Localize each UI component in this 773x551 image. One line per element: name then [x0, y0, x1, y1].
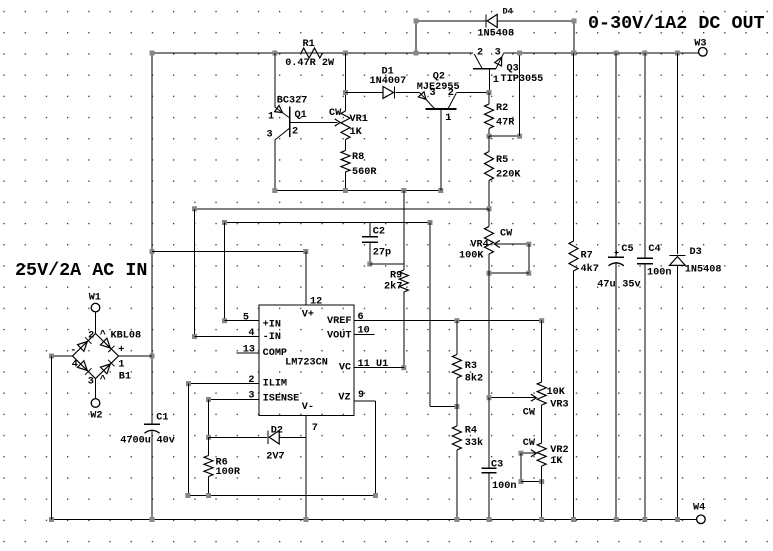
transistor Q1 body	[289, 107, 291, 138]
node Q3 base junction	[487, 90, 492, 95]
wire +V column below C1	[151, 430, 153, 520]
svg-text:35v: 35v	[622, 280, 640, 291]
svg-text:27p: 27p	[373, 248, 391, 259]
wire Q1 base	[290, 122, 338, 124]
wire divider tap	[430, 406, 457, 408]
wire pin2 riser	[188, 384, 190, 496]
svg-text:LM723CN: LM723CN	[285, 357, 328, 368]
svg-text:R3: R3	[465, 361, 477, 372]
wire +V column x152	[151, 53, 153, 424]
wire bottom rail	[52, 519, 697, 521]
svg-text:ISENSE: ISENSE	[263, 393, 300, 404]
svg-text:D2: D2	[271, 426, 283, 437]
transistor Q2 base lead	[440, 109, 442, 191]
svg-text:1K: 1K	[550, 456, 563, 467]
svg-text:B1: B1	[119, 371, 131, 382]
wire VREF corner to VR3	[541, 321, 543, 382]
svg-text:560R: 560R	[352, 167, 377, 178]
wire +IN riser to pin5	[224, 223, 226, 321]
svg-text:+: +	[118, 345, 124, 356]
bridge diode bottom-left	[78, 361, 88, 371]
wire pin4 stub	[195, 336, 260, 338]
wire R5 top lead	[488, 136, 490, 151]
wire pin6 stub / VREF net	[354, 320, 542, 322]
resistor R9	[399, 270, 408, 292]
wire pin10 stub	[354, 333, 375, 335]
transistor Q3 emitter arrow	[495, 57, 502, 66]
wire VR1 to R8	[345, 140, 347, 151]
svg-text:VR1: VR1	[350, 114, 368, 125]
terminal W3	[699, 48, 708, 57]
svg-text:COMP: COMP	[263, 348, 287, 359]
svg-text:0-30V/1A2 DC OUT: 0-30V/1A2 DC OUT	[588, 13, 765, 34]
node VR1/D1 junction	[343, 90, 348, 95]
bridge diode top-left	[78, 342, 88, 352]
node R3/R4 junction	[454, 404, 459, 409]
svg-text:3: 3	[88, 376, 94, 387]
wire D2 left lead	[209, 436, 268, 438]
node bottom at C3	[487, 517, 492, 522]
svg-text:10K: 10K	[547, 387, 566, 398]
node VR2 wiper corner	[518, 451, 523, 456]
svg-text:D3: D3	[690, 247, 702, 258]
wire W2 lead	[95, 379, 97, 399]
bridge B1 diamond	[73, 334, 119, 379]
svg-text:Q2: Q2	[433, 72, 445, 83]
node V+ corner	[303, 249, 308, 254]
svg-text:CW: CW	[329, 108, 342, 119]
wire VR1 top lead	[345, 53, 347, 111]
node bottom at D3	[675, 517, 680, 522]
svg-text:1N4007: 1N4007	[370, 76, 407, 87]
svg-text:VOUT: VOUT	[327, 331, 351, 342]
wire pin13 stub	[237, 352, 259, 354]
resistor R3	[452, 355, 461, 379]
potentiometer VR1	[341, 111, 350, 140]
wire pin11 stub	[354, 367, 404, 369]
svg-text:40v: 40v	[157, 436, 175, 447]
terminal W1	[91, 303, 100, 312]
diode D2	[269, 431, 279, 445]
wire R4 top lead	[456, 407, 458, 427]
svg-text:VZ: VZ	[338, 393, 350, 404]
node D4 right	[572, 18, 577, 23]
node bottom at R7	[571, 517, 576, 522]
svg-text:^: ^	[100, 329, 106, 341]
node VREF right corner	[539, 318, 544, 323]
svg-text:VC: VC	[339, 362, 351, 373]
svg-text:R9: R9	[390, 271, 402, 282]
svg-text:U1: U1	[376, 359, 388, 370]
wire C5 bottom lead	[615, 263, 617, 520]
capacitor C3	[482, 467, 497, 469]
wire VR4 to C3 column	[488, 254, 490, 468]
svg-text:7: 7	[312, 423, 318, 434]
svg-text:-IN: -IN	[263, 332, 281, 343]
wire pin12 riser	[305, 252, 307, 306]
node bottom at C4	[642, 517, 647, 522]
wire R7 top lead	[573, 53, 575, 241]
svg-text:2V7: 2V7	[266, 452, 284, 463]
node bottom at pin7	[303, 517, 308, 522]
wire D2 right lead	[279, 436, 306, 438]
node R2 bottom junction	[487, 134, 492, 139]
svg-text:4700u: 4700u	[120, 436, 151, 447]
wire C4 top lead	[644, 53, 646, 258]
transistor Q3 emitter diagonal	[496, 54, 504, 69]
wire pin3 stub	[209, 399, 260, 401]
svg-text:^: ^	[100, 374, 106, 386]
svg-text:12: 12	[310, 296, 322, 307]
wire pin9 riser	[375, 401, 377, 496]
bridge diode bottom-right	[101, 364, 111, 374]
svg-text:1K: 1K	[350, 127, 363, 138]
wire -IN riser to pin4	[194, 209, 196, 337]
node +IN right corner	[428, 220, 433, 225]
node pin4 corner	[192, 334, 197, 339]
svg-text:Q1: Q1	[295, 110, 307, 121]
wire VR3 wiper	[489, 397, 536, 399]
svg-text:W2: W2	[90, 410, 102, 421]
node base bus at R9	[401, 188, 406, 193]
node -IN left corner	[192, 206, 197, 211]
transistor Q3 base lead	[488, 69, 490, 93]
node base bus right corner	[438, 188, 443, 193]
svg-text:1: 1	[445, 113, 451, 124]
wire -IN net	[195, 208, 490, 210]
node base bus at R8	[343, 188, 348, 193]
wire +IN net	[225, 222, 431, 224]
svg-text:1: 1	[118, 359, 124, 370]
node pin2 corner	[186, 381, 191, 386]
wire VR2 wiper	[521, 452, 537, 454]
wire VR4 wiper	[494, 243, 529, 245]
wire pin5 stub	[225, 320, 260, 322]
svg-text:ILIM: ILIM	[263, 379, 287, 390]
svg-text:R2: R2	[496, 103, 508, 114]
svg-text:9: 9	[358, 390, 364, 401]
node base bus left corner	[272, 188, 277, 193]
node VR4 bypass corner	[526, 271, 531, 276]
wire V+ net	[152, 251, 306, 253]
node C2 corner	[367, 262, 372, 267]
op-amp U1 LM723CN box	[259, 305, 354, 416]
wire C2 top lead	[369, 223, 371, 237]
svg-text:Q3: Q3	[507, 64, 519, 75]
node rail at C5	[614, 51, 619, 56]
node top-left corner	[150, 51, 155, 56]
svg-text:100n: 100n	[647, 267, 671, 278]
svg-text:2: 2	[88, 330, 94, 341]
svg-text:13: 13	[243, 344, 255, 355]
svg-text:C4: C4	[648, 244, 660, 255]
svg-text:100K: 100K	[459, 251, 484, 262]
wire C3 top lead	[488, 398, 490, 468]
node rail at Q1 emitter	[272, 51, 277, 56]
node pin5 corner	[222, 318, 227, 323]
wire D4 cathode lead	[416, 20, 486, 22]
svg-text:8k2: 8k2	[465, 373, 483, 385]
svg-text:VR2: VR2	[550, 445, 568, 456]
wire C2 bottom lead	[369, 242, 371, 264]
node bottom left corner	[49, 517, 54, 522]
svg-text:BC327: BC327	[277, 95, 308, 106]
node VR4 wiper corner	[526, 242, 531, 247]
resistor R8	[341, 151, 350, 173]
node sense bus right	[373, 493, 378, 498]
svg-text:R5: R5	[496, 155, 508, 166]
transistor Q1 emitter arrow	[275, 105, 283, 112]
wire pin7 riser	[305, 416, 307, 520]
svg-text:4: 4	[248, 328, 254, 339]
wire pin2 stub	[189, 383, 260, 385]
node rail at C4	[642, 51, 647, 56]
svg-text:-: -	[70, 345, 76, 356]
wire pin3 riser	[208, 400, 210, 438]
wiper arrow VR4	[494, 240, 500, 247]
svg-text:1: 1	[493, 75, 499, 86]
svg-text:3: 3	[430, 88, 436, 99]
transistor Q2 body	[425, 108, 456, 110]
wire R9 top lead	[403, 191, 405, 271]
svg-text:220K: 220K	[496, 170, 521, 181]
svg-text:R7: R7	[581, 251, 593, 262]
svg-text:3: 3	[267, 130, 273, 141]
node rail at D3	[675, 51, 680, 56]
node +IN left corner	[222, 220, 227, 225]
node VR2 bypass corner	[518, 479, 523, 484]
svg-text:100R: 100R	[216, 467, 241, 478]
wire pin9 stub	[354, 400, 376, 402]
node bridge plus	[150, 354, 155, 359]
node R5 bottom / -IN junction	[487, 206, 492, 211]
transistor Q2 emitter diagonal	[420, 93, 435, 110]
potentiometer VR4	[485, 227, 494, 255]
resistor R7	[569, 241, 578, 271]
svg-text:V-: V-	[302, 402, 314, 413]
transistor Q2 collector diagonal	[448, 93, 456, 109]
svg-text:VR4: VR4	[470, 239, 488, 250]
svg-text:2k7: 2k7	[384, 281, 402, 293]
svg-text:0.47R 2W: 0.47R 2W	[285, 58, 335, 69]
wire R2 top lead	[488, 93, 490, 105]
node bridge minus corner	[49, 354, 54, 359]
wiper arrow VR1	[335, 119, 341, 126]
node VREF at R3	[454, 318, 459, 323]
node D4 left	[414, 18, 419, 23]
capacitor C2	[362, 236, 378, 238]
svg-text:KBL08: KBL08	[111, 330, 142, 341]
wire D3 bottom lead	[676, 265, 678, 519]
node rail at D4 left riser	[414, 51, 419, 56]
wire W1 lead	[95, 312, 97, 334]
capacitor C1 plates	[144, 423, 160, 425]
wire D3 top lead	[676, 53, 678, 254]
svg-text:5: 5	[243, 312, 249, 323]
svg-text:CW: CW	[523, 407, 536, 418]
svg-text:100n: 100n	[492, 481, 516, 492]
node output riser bottom	[517, 134, 522, 139]
wire R4 bottom lead	[456, 450, 458, 520]
diode D1	[383, 87, 394, 99]
node pin3 corner	[206, 397, 211, 402]
node rail at VR1 column	[343, 51, 348, 56]
svg-text:W1: W1	[89, 292, 101, 303]
diode D4	[487, 14, 497, 27]
svg-text:VREF: VREF	[327, 316, 351, 327]
node bottom at C1	[150, 517, 155, 522]
svg-text:6: 6	[358, 312, 364, 323]
wire VR4 wiper riser	[528, 244, 530, 273]
resistor R1	[301, 48, 323, 58]
wiper arrow VR3	[531, 394, 537, 401]
terminal W2	[91, 399, 100, 408]
svg-text:2: 2	[292, 127, 298, 138]
potentiometer VR3	[537, 382, 546, 405]
node VR4 bottom junction	[487, 271, 492, 276]
svg-text:VR3: VR3	[550, 399, 568, 410]
wire Q1 collector column	[274, 140, 276, 191]
transistor Q1 collector diagonal	[275, 128, 290, 140]
wire Q1 emitter column	[274, 53, 276, 107]
node VR3 wiper at C3 column	[487, 395, 492, 400]
wire D4 branch right riser	[573, 21, 575, 53]
resistor R4	[452, 426, 461, 450]
wire VR2 bypass	[521, 481, 542, 483]
capacitor C4	[637, 257, 653, 259]
wire top rail output segment	[504, 52, 699, 54]
wire bridge plus lead	[119, 355, 153, 357]
wire VR2 wiper riser	[520, 453, 522, 481]
bridge diode top-right	[101, 338, 111, 348]
wire divider riser x430	[429, 223, 431, 407]
node pin11 node	[401, 365, 406, 370]
wire C2 to R9	[370, 263, 404, 265]
svg-text:V+: V+	[302, 310, 314, 321]
wire C5 top lead	[615, 53, 617, 257]
capacitor C5 plates	[608, 256, 624, 258]
svg-text:3: 3	[495, 48, 501, 59]
svg-text:4: 4	[72, 359, 78, 370]
wire R6 top lead	[208, 437, 210, 455]
wire D4 branch left riser	[415, 21, 417, 53]
node bottom at C5	[614, 517, 619, 522]
svg-text:D4: D4	[503, 7, 513, 17]
wire VR4 bypass	[489, 272, 529, 274]
resistor R6	[204, 456, 213, 477]
svg-text:W4: W4	[693, 503, 705, 514]
wire R9 bottom lead	[403, 292, 405, 368]
svg-text:2: 2	[248, 375, 254, 386]
wire D1 anode lead	[346, 92, 383, 94]
svg-text:CW: CW	[523, 438, 536, 449]
node V+ takeoff	[150, 249, 155, 254]
node rail at output riser	[517, 51, 522, 56]
svg-text:33k: 33k	[465, 437, 483, 449]
node rail at D4 right riser	[572, 51, 577, 56]
svg-text:4k7: 4k7	[581, 263, 599, 275]
svg-text:C2: C2	[373, 227, 385, 238]
wire R2 bottom lead	[488, 129, 490, 137]
wire R8 bottom lead	[345, 172, 347, 191]
svg-text:R8: R8	[352, 152, 364, 163]
svg-text:10: 10	[358, 326, 370, 337]
node sense bus at R6	[206, 493, 211, 498]
svg-text:C1: C1	[156, 413, 168, 424]
svg-text:C3: C3	[491, 460, 503, 471]
svg-text:47u: 47u	[597, 280, 615, 291]
svg-text:1: 1	[268, 112, 274, 123]
svg-text:1N5408: 1N5408	[477, 29, 514, 40]
node D2 anode junction	[206, 435, 211, 440]
wire sense bus	[188, 495, 376, 497]
wire C3 bottom lead	[488, 473, 490, 520]
resistor R5	[485, 152, 494, 181]
wire base bus	[275, 190, 441, 192]
svg-text:TIP3055: TIP3055	[501, 74, 544, 85]
svg-text:2: 2	[477, 48, 483, 59]
wire VR2 bottom lead	[541, 466, 543, 520]
svg-text:R4: R4	[465, 426, 477, 437]
wire R6 bottom lead	[208, 477, 210, 496]
wire top rail unregulated segment	[152, 52, 473, 54]
wire R5 bottom lead	[488, 181, 490, 209]
wiper arrow VR2	[531, 450, 537, 457]
wire bridge minus lead	[52, 355, 73, 357]
wire AC minus column	[51, 356, 53, 520]
wire output riser x519	[519, 53, 521, 136]
wire Q2 collector to Q3 base node	[456, 92, 489, 94]
node rail at R7	[571, 51, 576, 56]
svg-text:1N5408: 1N5408	[685, 265, 722, 276]
node bottom at R4	[454, 517, 459, 522]
svg-text:2: 2	[448, 88, 454, 99]
wire R3 top lead	[456, 321, 458, 355]
transistor Q3 body	[473, 68, 496, 70]
wire R3 bottom lead	[456, 378, 458, 407]
svg-text:11: 11	[358, 359, 370, 370]
node bottom at VR2	[539, 517, 544, 522]
transistor Q3 collector diagonal	[474, 54, 482, 69]
svg-text:C5: C5	[621, 244, 633, 255]
resistor R2	[485, 104, 494, 129]
svg-text:R1: R1	[303, 39, 315, 50]
wire VR4 top lead	[488, 209, 490, 227]
terminal W4	[697, 515, 706, 524]
transistor Q1 emitter diagonal	[275, 107, 290, 118]
svg-text:47R: 47R	[496, 118, 515, 129]
wire VR3 to VR2	[541, 405, 543, 443]
diode D3	[670, 257, 686, 266]
wire R7 bottom lead	[573, 271, 575, 520]
wire R2 to output riser	[489, 135, 520, 137]
svg-text:+IN: +IN	[263, 319, 281, 330]
node VR2 bypass at column	[539, 479, 544, 484]
svg-text:25V/2A AC IN: 25V/2A AC IN	[15, 260, 147, 281]
transistor Q2 emitter arrow	[418, 92, 426, 100]
potentiometer VR2	[537, 443, 546, 466]
wire D4 anode lead	[497, 20, 574, 22]
svg-text:CW: CW	[500, 228, 513, 239]
wire C4 bottom lead	[644, 264, 646, 520]
node sense bus left	[185, 493, 190, 498]
wire D1 cathode lead	[396, 92, 420, 94]
